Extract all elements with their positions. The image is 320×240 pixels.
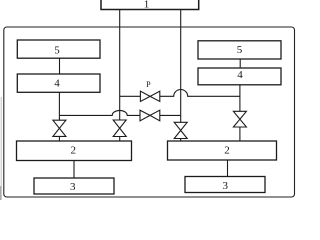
- box 3 right: [185, 177, 265, 193]
- wire: box5R to box4R: [239, 59, 241, 68]
- box 2 right: [168, 141, 277, 160]
- svg-text:3: 3: [70, 181, 76, 193]
- svg-text:2: 2: [224, 144, 230, 156]
- svg-text:2: 2: [71, 144, 77, 156]
- box 2 left: [17, 141, 132, 161]
- scan artifact: dark bottom-left corner speck: [0, 186, 1, 200]
- box 3 left: [34, 178, 114, 194]
- wire: upper horizontal run with hop over right leg: [120, 90, 240, 97]
- valve P (horizontal bowtie): [140, 91, 159, 101]
- svg-text:3: 3: [223, 180, 229, 192]
- wire: valve V4 bottom to box 2 right: [239, 127, 241, 141]
- wire: valve V2 to box 2 left: [119, 137, 121, 142]
- wire: box4R down to valve V4: [239, 85, 241, 112]
- valve V2 (vertical bowtie on left leg): [113, 120, 126, 137]
- wire: lower horizontal run with hop over left leg: [59, 110, 180, 115]
- wire: valve V3 to box 2 right: [180, 139, 182, 142]
- wire: right leg from box 1 down to valve V3: [180, 10, 182, 123]
- valve V3 (vertical bowtie on right leg): [174, 122, 187, 138]
- wire: valve V1 to box 2 left: [58, 136, 60, 141]
- svg-text:P: P: [146, 80, 151, 89]
- valve 2nd horizontal bowtie: [140, 110, 160, 121]
- box 4 right: [198, 68, 281, 85]
- wire: box5L to box4L: [59, 58, 61, 74]
- wire: box4L down to valve V1: [58, 92, 60, 120]
- scan artifact: faint left edge line: [0, 97, 2, 200]
- svg-text:5: 5: [54, 44, 60, 56]
- box 5 right: [198, 41, 281, 59]
- wire: box2R to box3R: [227, 160, 229, 177]
- wire: left leg from box 1 down to valve V2: [119, 10, 121, 121]
- svg-text:1: 1: [144, 0, 150, 10]
- box 5 left: [17, 40, 100, 58]
- box 4 left: [17, 74, 100, 92]
- valve V1 (vertical bowtie on left branch): [53, 120, 66, 136]
- svg-text:5: 5: [237, 44, 243, 56]
- box 1 (top unit): [101, 0, 199, 10]
- svg-text:4: 4: [54, 78, 60, 90]
- valve V4 (vertical bowtie on right branch): [233, 111, 246, 127]
- wire: box2L to box3L: [73, 161, 75, 179]
- outer enclosure frame: [4, 27, 295, 197]
- svg-text:4: 4: [237, 69, 243, 81]
